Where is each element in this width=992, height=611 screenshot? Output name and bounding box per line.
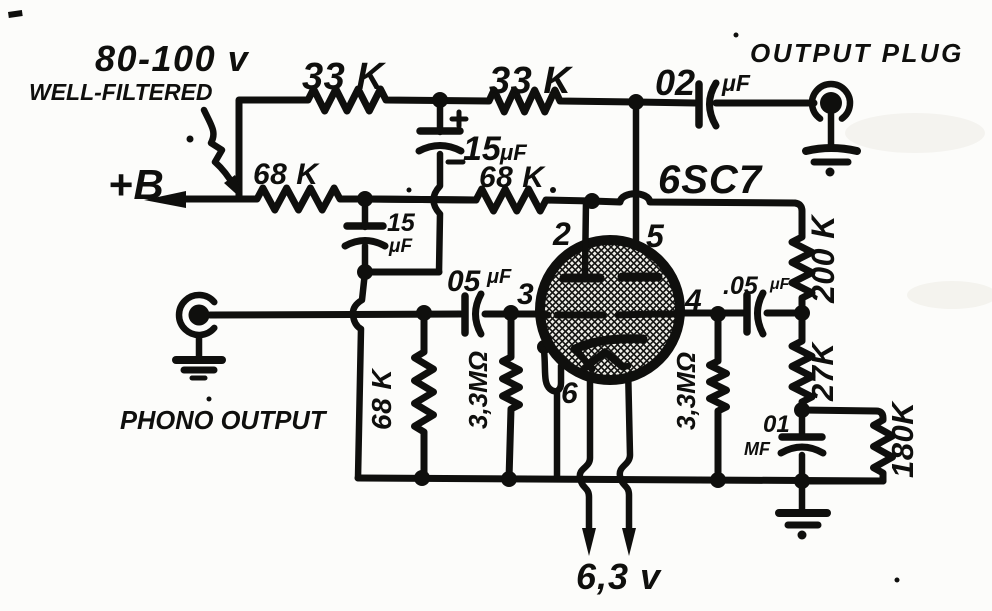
svg-text:3,3MΩ: 3,3MΩ	[671, 352, 701, 430]
svg-text:+B: +B	[108, 161, 165, 208]
svg-text:MF: MF	[744, 439, 771, 459]
svg-text:μF: μF	[388, 236, 413, 257]
svg-text:3,3MΩ: 3,3MΩ	[463, 351, 493, 429]
svg-text:80-100 v: 80-100 v	[95, 38, 250, 79]
svg-text:μF: μF	[721, 70, 751, 96]
svg-text:2: 2	[552, 216, 571, 252]
svg-text:33 K: 33 K	[302, 56, 386, 98]
svg-text:6,3 v: 6,3 v	[576, 556, 662, 597]
svg-text:180K: 180K	[885, 400, 920, 478]
svg-text:μF: μF	[486, 266, 512, 288]
svg-text:6SC7: 6SC7	[658, 158, 763, 202]
svg-text:3: 3	[517, 278, 534, 311]
svg-text:OUTPUT PLUG: OUTPUT PLUG	[750, 38, 964, 68]
svg-text:μF: μF	[769, 276, 791, 293]
svg-text:PHONO OUTPUT: PHONO OUTPUT	[120, 407, 328, 435]
svg-text:6: 6	[561, 377, 578, 410]
svg-text:01: 01	[763, 411, 790, 438]
svg-text:.05: .05	[723, 272, 759, 300]
svg-text:02: 02	[655, 62, 695, 103]
svg-text:68 K: 68 K	[253, 158, 320, 191]
svg-text:33 K: 33 K	[489, 60, 573, 102]
svg-text:5: 5	[646, 218, 665, 254]
svg-text:68 K: 68 K	[479, 161, 546, 194]
svg-text:200 K: 200 K	[805, 213, 841, 304]
svg-text:68 K: 68 K	[366, 368, 397, 430]
svg-text:05: 05	[447, 265, 482, 298]
svg-text:WELL-FILTERED: WELL-FILTERED	[29, 79, 213, 105]
svg-text:27K: 27K	[805, 341, 840, 402]
svg-text:15: 15	[387, 209, 416, 237]
svg-text:4: 4	[684, 284, 702, 317]
